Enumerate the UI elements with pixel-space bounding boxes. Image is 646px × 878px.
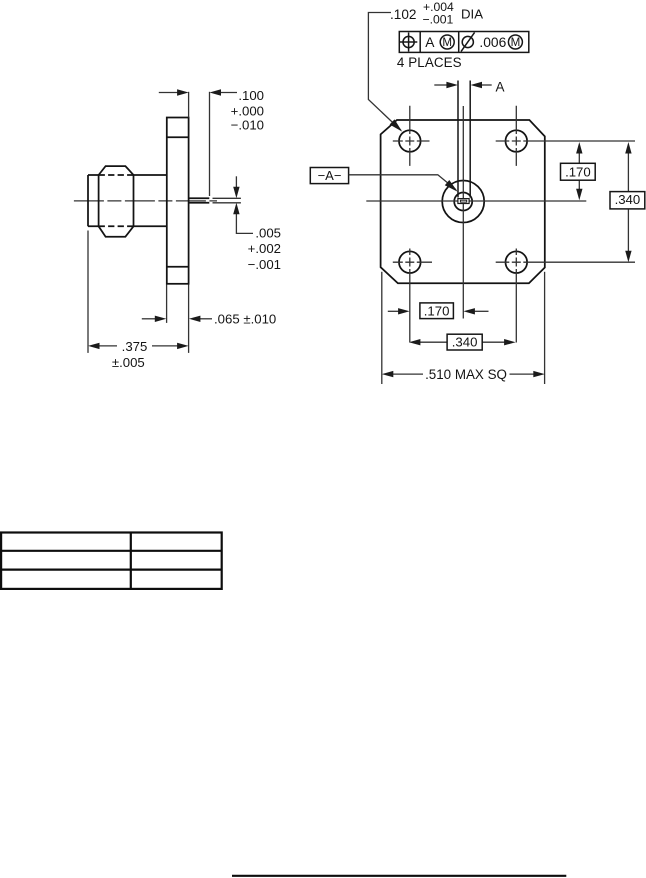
label .102 +.004 -.001 DIA <box>390 0 483 27</box>
svg-text:A: A <box>425 35 435 50</box>
svg-text:M: M <box>511 36 521 49</box>
bottom dimension .510 MAX SQ <box>382 272 545 384</box>
center inner circle <box>454 193 472 211</box>
M circle (datum modifier) <box>440 35 454 49</box>
dimension .005: upper dim line <box>235 176 237 188</box>
svg-text:.065 ±.010: .065 ±.010 <box>214 311 276 326</box>
M circle (tolerance modifier) <box>508 35 522 49</box>
.510 left extension line <box>381 272 383 384</box>
bottom dimension .340 <box>420 341 505 343</box>
front view: square flange outline with chamfered corners <box>381 120 545 283</box>
dimension .065: left-pointing arrowhead <box>189 316 201 322</box>
section line A right <box>469 81 471 198</box>
center contact slot (inner) <box>460 200 466 202</box>
svg-text:.102: .102 <box>390 7 416 22</box>
dimension .100: extension line at pin tip <box>209 92 211 196</box>
bottom .340 left-pointing arrowhead <box>409 339 421 345</box>
svg-text:+.002: +.002 <box>248 241 281 256</box>
datum leader arrowhead <box>445 180 458 192</box>
svg-text:−A−: −A− <box>318 168 342 183</box>
svg-text:M: M <box>442 36 452 49</box>
dimension .375: dim line <box>99 345 178 347</box>
mounting hole top-right <box>506 130 528 152</box>
right .170 down arrowhead <box>576 189 582 201</box>
crosshair bottom-left hole vertical + extension to bottom dims <box>409 249 411 343</box>
right dimension .340 <box>627 153 629 251</box>
side view: connector centerline <box>74 200 217 202</box>
svg-text:.170: .170 <box>424 303 450 318</box>
svg-text:.100: .100 <box>238 88 264 103</box>
right .170 up arrowhead <box>576 142 582 154</box>
svg-text:−.010: −.010 <box>231 118 264 133</box>
side view: flange lower step line <box>167 266 189 268</box>
right .340 up arrowhead <box>625 142 631 154</box>
dimension .100: left-pointing arrowhead <box>210 89 222 95</box>
side view: center pin <box>189 198 210 203</box>
.510 right-pointing arrowhead <box>533 371 545 377</box>
section arrow A: right-pointing arrowhead <box>446 82 458 88</box>
bottom .170 left-pointing arrowhead <box>463 308 475 314</box>
bottom .340 right-pointing arrowhead <box>504 339 515 345</box>
svg-text:−.001: −.001 <box>248 257 281 272</box>
feature control frame <box>399 32 529 53</box>
side view: body hidden bottom edge behind hex (dashed) <box>99 225 134 227</box>
dimension .005: lower dim line with elbow <box>236 213 253 233</box>
dimension .375: left extension line <box>87 231 89 353</box>
footer rule <box>232 875 566 877</box>
dimension .100: extension line at flange face <box>188 92 190 118</box>
dimension .005: down-pointing arrowhead <box>233 187 239 199</box>
right .340 box <box>610 192 645 209</box>
crosshair top-right hole horizontal + extension to right dims <box>496 140 635 142</box>
section line A left <box>457 81 459 198</box>
bottom .340 box <box>447 334 482 350</box>
crosshair top-left hole vertical <box>409 106 411 166</box>
svg-text:.340: .340 <box>452 335 478 350</box>
.510 left-pointing arrowhead <box>382 371 394 377</box>
crosshair bottom-left hole horizontal <box>393 261 432 263</box>
crosshair bottom-right hole horizontal + extension to right dims <box>496 261 635 263</box>
side view: body cylinder top edge <box>88 174 167 176</box>
svg-text:.006: .006 <box>479 35 506 50</box>
crosshair bottom-right hole vertical + extension to bottom dims <box>515 249 517 343</box>
dimension .100: right dim line <box>220 92 237 94</box>
svg-text:.375: .375 <box>122 339 148 354</box>
dimension .100: right-pointing arrowhead <box>177 89 189 95</box>
dimension .065: right dim line <box>199 318 212 320</box>
leader arrowhead for .102 callout <box>390 119 403 131</box>
svg-text:.005: .005 <box>255 226 281 241</box>
side view: flange upper step line <box>167 136 189 138</box>
center outer circle <box>442 181 484 223</box>
side view: flange plate <box>167 118 189 284</box>
dimension .005: pin top extension line <box>213 197 241 199</box>
dimension .065: left dim line <box>142 318 156 320</box>
side view: body hidden top edge behind hex (dashed) <box>99 174 134 176</box>
front view: horizontal centerline <box>366 200 586 202</box>
side view: body cylinder bottom edge <box>88 225 167 227</box>
diameter symbol <box>462 36 473 47</box>
svg-text:.510 MAX SQ: .510 MAX SQ <box>425 367 507 382</box>
mounting hole bottom-right <box>506 251 528 273</box>
.510 dim line <box>393 373 534 375</box>
datum leader line <box>349 175 456 190</box>
dimension .375: right-pointing arrowhead <box>177 343 189 349</box>
svg-text:.170: .170 <box>565 165 591 180</box>
svg-text:A: A <box>496 80 505 95</box>
section arrow A: left line <box>434 84 447 86</box>
bottom dimension .170 <box>388 310 489 312</box>
dimension .005: pin bottom extension line <box>213 202 241 204</box>
svg-text:DIA: DIA <box>461 7 483 22</box>
datum label -A- box <box>310 168 348 184</box>
dimension .005: up-pointing arrowhead <box>233 203 239 215</box>
side view: body cylinder left cap <box>87 175 89 226</box>
side view: hex nut outline <box>99 166 134 237</box>
center contact slot (outer) <box>458 199 469 204</box>
dimension .065: flange right extension line <box>188 285 190 353</box>
mounting hole bottom-left <box>399 251 421 273</box>
bottom .170 box <box>420 303 454 319</box>
true position symbol <box>403 36 414 47</box>
svg-text:−.001: −.001 <box>423 13 454 27</box>
leader line for hole size callout .102 <box>368 13 401 131</box>
svg-text:±.005: ±.005 <box>112 355 145 370</box>
right dimension .170 <box>578 153 580 190</box>
bottom .170 right-pointing arrowhead <box>398 308 410 314</box>
dimension .375: left-pointing arrowhead <box>88 343 100 349</box>
right .170 box <box>561 163 596 180</box>
mounting hole top-left <box>399 130 421 152</box>
section arrow A: left-pointing arrowhead <box>471 82 483 88</box>
crosshair top-left hole horizontal <box>393 140 430 142</box>
crosshair top-right hole vertical <box>515 106 517 166</box>
dimension .100: left dim line <box>159 92 178 94</box>
right .340 down arrowhead <box>625 251 631 263</box>
svg-text:+.000: +.000 <box>231 103 264 118</box>
section arrow A: right line <box>482 84 492 86</box>
dimension .065: right-pointing arrowhead <box>155 316 167 322</box>
dimension .065: flange left extension line <box>166 285 168 323</box>
.510 right extension line <box>544 272 546 384</box>
svg-text:.340: .340 <box>615 192 641 207</box>
svg-text:4 PLACES: 4 PLACES <box>397 55 462 70</box>
front view: vertical centerline <box>462 106 464 319</box>
revision table (empty) <box>1 533 222 589</box>
